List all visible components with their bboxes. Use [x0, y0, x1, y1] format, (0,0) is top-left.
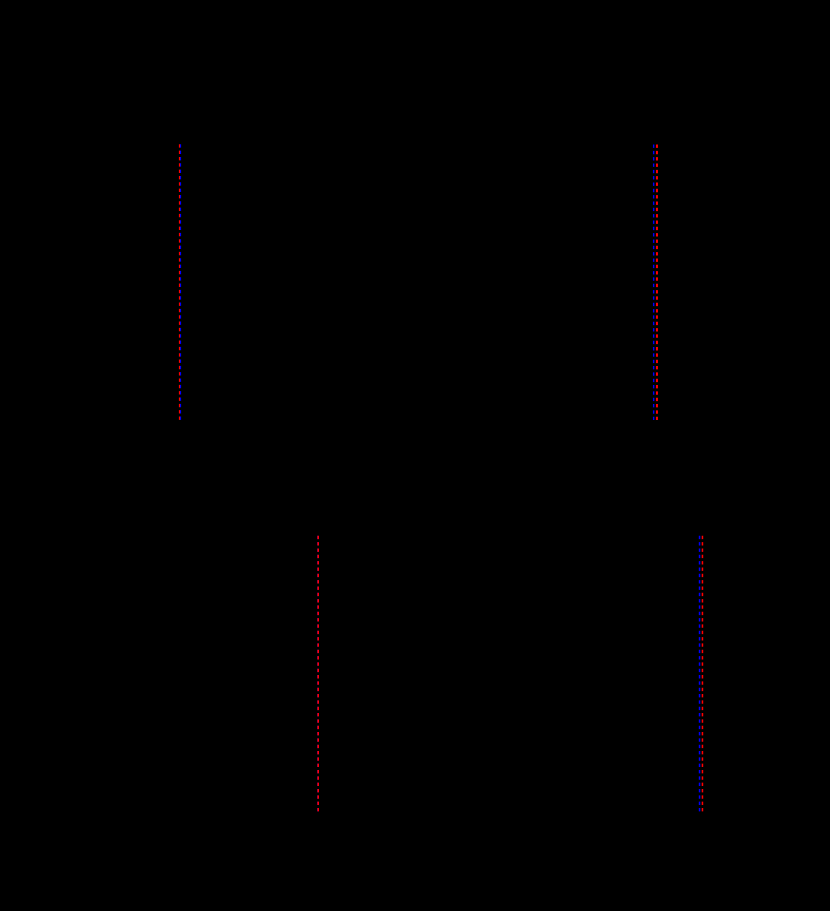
subplot TR: red dashed vline (mean): [656, 145, 658, 421]
subplot TL: blue dashed vline (median): [180, 144, 182, 420]
subplot TL: red dashed vline (mean): [178, 144, 180, 420]
subplot TR: blue dashed vline (median): [653, 145, 655, 421]
subplot BR: red dashed vline (mean): [701, 536, 703, 812]
subplot BL: blue dashed vline (median): [317, 536, 319, 812]
subplot BL: red dashed vline (mean): [317, 536, 319, 812]
subplot BR: blue dashed vline (median): [699, 536, 701, 812]
